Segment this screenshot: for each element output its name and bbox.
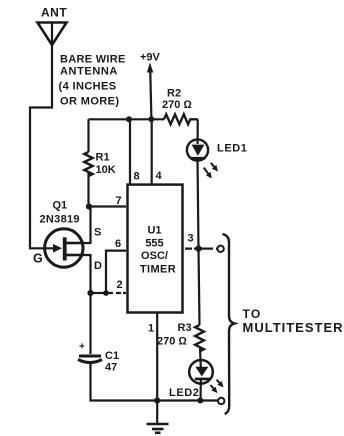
svg-text:LED2: LED2 [169,387,200,399]
svg-text:4: 4 [156,170,163,182]
svg-text:R1: R1 [96,152,110,164]
svg-text:LED1: LED1 [217,143,248,155]
svg-text:10K: 10K [96,164,116,176]
svg-text:8: 8 [134,171,140,183]
svg-text:2: 2 [117,279,123,291]
svg-text:+: + [79,342,85,353]
svg-text:R3: R3 [178,322,192,334]
svg-text:555: 555 [145,237,163,249]
svg-text:OSC/: OSC/ [141,250,168,262]
svg-text:TIMER: TIMER [140,264,176,276]
svg-text:MULTITESTER: MULTITESTER [243,320,344,335]
svg-text:ANT: ANT [41,6,67,20]
svg-text:Q1: Q1 [53,200,68,212]
svg-text:S: S [94,227,101,239]
svg-text:1: 1 [148,323,154,335]
svg-text:ANTENNA: ANTENNA [60,65,118,77]
svg-text:270 Ω: 270 Ω [162,99,192,111]
svg-text:2N3819: 2N3819 [40,214,80,226]
svg-text:6: 6 [115,238,121,250]
svg-text:U1: U1 [147,225,161,237]
svg-text:270 Ω: 270 Ω [157,336,187,348]
svg-text:OR MORE): OR MORE) [60,96,119,108]
svg-text:47: 47 [105,362,117,374]
svg-text:BARE WIRE: BARE WIRE [60,54,126,66]
svg-text:+9V: +9V [140,52,161,64]
svg-text:3: 3 [188,233,194,245]
svg-text:7: 7 [116,195,122,207]
svg-text:D: D [94,260,102,272]
svg-text:G: G [33,252,43,266]
svg-text:(4 INCHES: (4 INCHES [59,81,117,93]
svg-text:C1: C1 [105,350,119,362]
svg-text:R2: R2 [167,88,181,100]
